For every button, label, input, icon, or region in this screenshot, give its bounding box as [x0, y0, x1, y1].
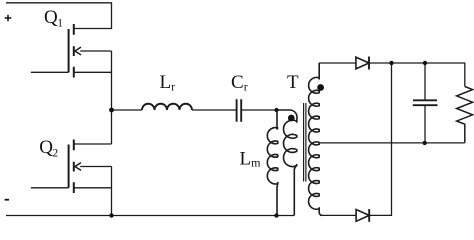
wire diode D2 to output junction — [369, 63, 391, 215]
inductor Lm — [267, 110, 277, 216]
secondary winding polarity dot — [317, 84, 324, 91]
label - input negative — [5, 199, 9, 201]
transformer T core — [304, 103, 306, 182]
inductor Lr — [142, 104, 192, 110]
transformer T primary winding — [277, 110, 298, 216]
primary winding polarity dot — [288, 115, 295, 122]
transformer T secondary winding — [309, 63, 323, 215]
diode D2 cathode bar — [368, 209, 370, 222]
wire center tap to output return — [320, 142, 465, 144]
wire Q1 source lead — [74, 71, 112, 73]
wire Q2 source to bottom rail — [111, 167, 113, 216]
wire rectifier output rail — [369, 63, 465, 87]
diode D2 (bottom) triangle — [356, 210, 369, 222]
wire secondary top lead to diode D1 — [319, 62, 356, 64]
node half-bridge midpoint junction — [109, 108, 114, 113]
wire Q2 drain lead — [75, 143, 112, 145]
node capacitor bottom junction — [423, 141, 427, 145]
wire Q2 body lead — [80, 166, 111, 168]
wire bottom rail — [6, 215, 294, 217]
wire Q1 body lead — [80, 50, 111, 52]
wire secondary bottom lead to diode D2 — [320, 214, 356, 216]
wire half-bridge midpoint vertical — [111, 51, 113, 144]
node capacitor top junction — [423, 61, 427, 65]
wire Q2 source lead — [74, 187, 112, 189]
wire Q1 gate lead — [31, 71, 69, 73]
transistor Q2 channel and gate — [69, 140, 74, 194]
wire Cr to node A — [241, 109, 276, 111]
node rectifier output junction — [389, 61, 393, 65]
resistor RL load — [457, 87, 473, 143]
wire Q2 gate lead — [31, 187, 69, 189]
diode D1 cathode bar — [368, 57, 370, 70]
capacitor Co plates — [413, 100, 438, 105]
wire midpoint to Lr — [112, 109, 143, 111]
node A Cr-Lm-primary junction — [274, 108, 278, 112]
label + input positive — [5, 15, 12, 22]
capacitor Cr — [237, 99, 242, 122]
node Lm bottom junction — [274, 213, 278, 217]
wire Lr to Cr — [192, 109, 237, 111]
transistor Q1 channel and gate — [69, 24, 74, 78]
transistor Q1 body arrow — [75, 47, 81, 55]
wire capacitor Co bottom lead — [424, 106, 426, 143]
wire capacitor Co top lead — [424, 63, 426, 99]
wire top rail — [6, 3, 112, 29]
transistor Q2 body arrow — [75, 163, 81, 171]
svg-text:T: T — [287, 72, 299, 93]
node Q2 source bottom rail junction — [109, 213, 113, 217]
diode D1 (top) triangle — [356, 57, 369, 69]
